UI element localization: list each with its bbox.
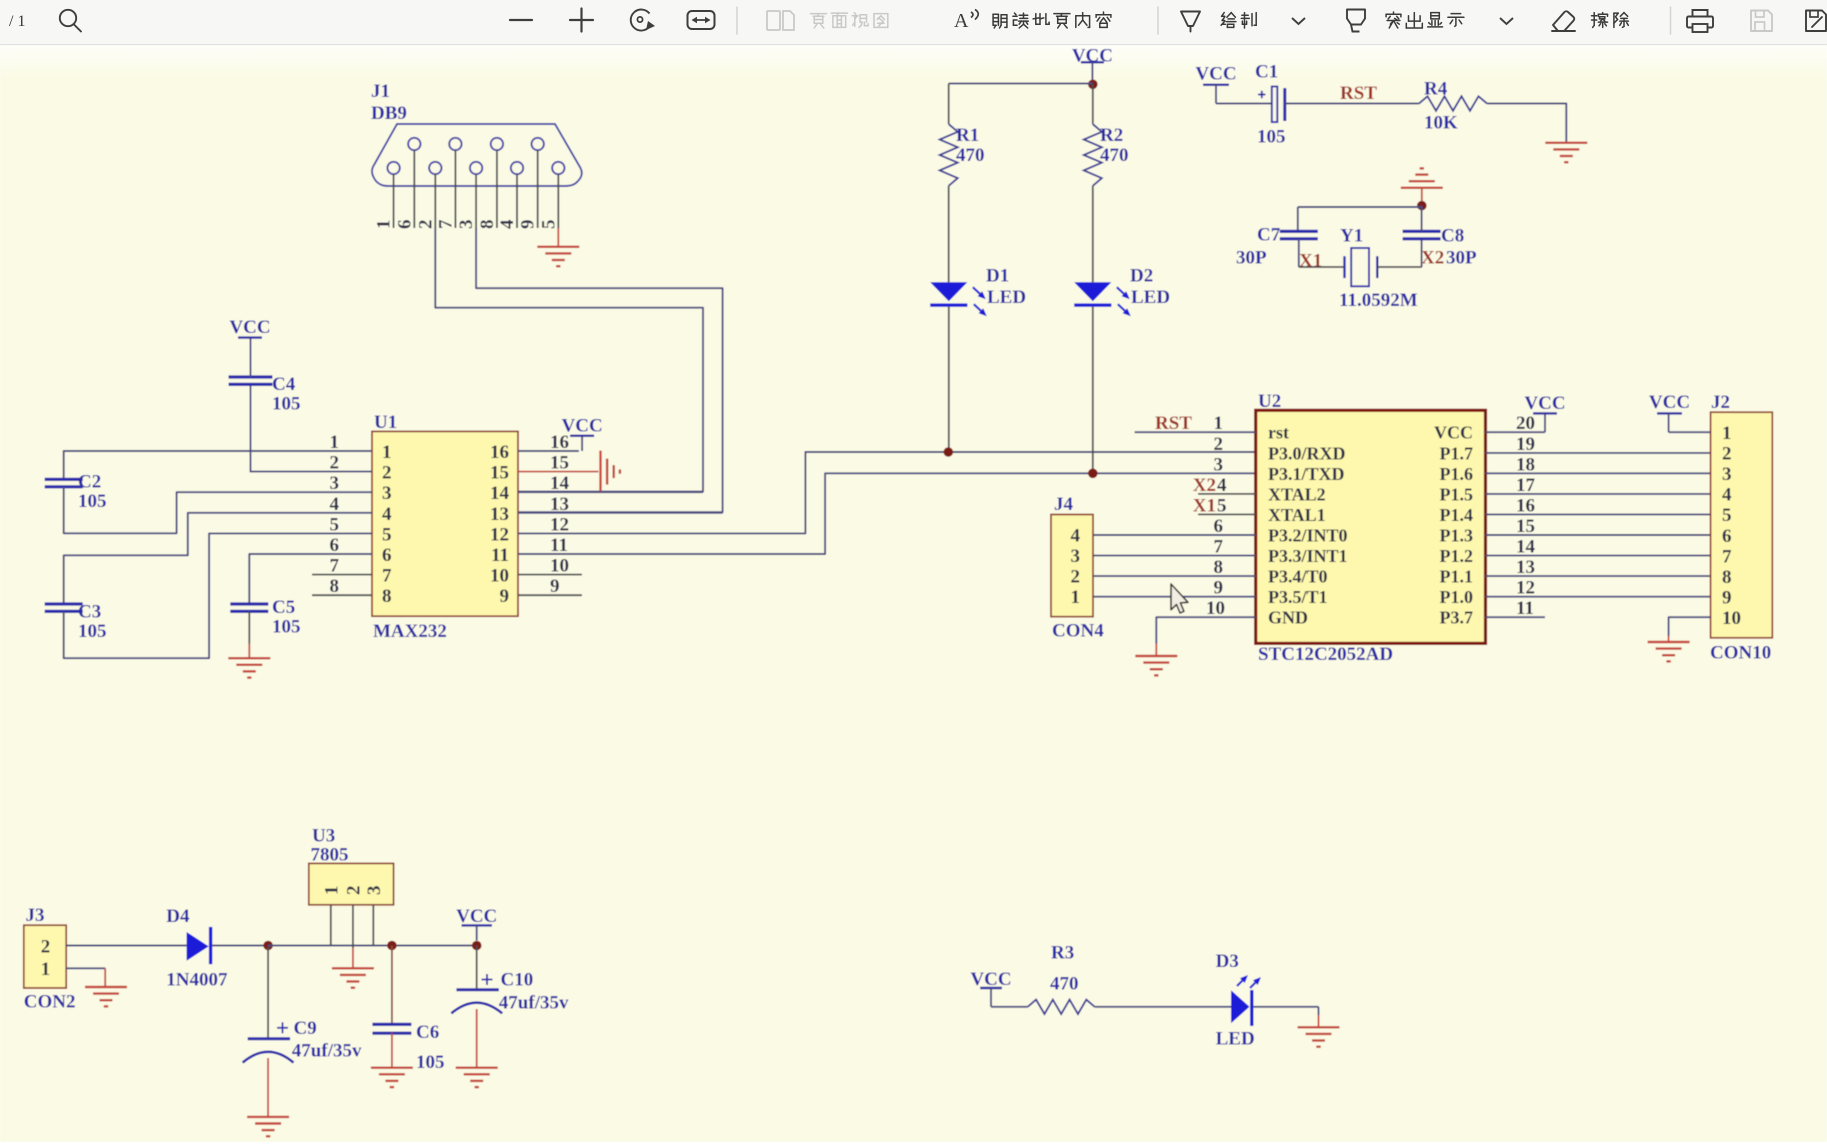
svg-text:CON4: CON4 — [1052, 621, 1104, 642]
svg-text:STC12C2052AD: STC12C2052AD — [1258, 644, 1393, 665]
svg-text:VCC: VCC — [1649, 392, 1690, 413]
svg-text:470: 470 — [1050, 974, 1079, 995]
svg-text:8: 8 — [382, 586, 392, 607]
svg-text:VCC: VCC — [1524, 393, 1565, 414]
svg-text:P3.1/TXD: P3.1/TXD — [1268, 464, 1345, 484]
svg-text:17: 17 — [1516, 475, 1536, 496]
svg-text:3: 3 — [1214, 454, 1224, 475]
svg-text:R3: R3 — [1051, 943, 1074, 964]
svg-text:16: 16 — [490, 442, 509, 463]
svg-text:R1: R1 — [956, 125, 979, 146]
svg-text:1: 1 — [1071, 587, 1081, 608]
svg-text:VCC: VCC — [562, 415, 603, 436]
svg-text:XTAL2: XTAL2 — [1268, 484, 1326, 504]
svg-text:9: 9 — [1722, 588, 1732, 609]
svg-text:4: 4 — [1071, 526, 1081, 547]
svg-text:J2: J2 — [1711, 392, 1730, 413]
svg-text:6: 6 — [1214, 516, 1224, 537]
svg-text:18: 18 — [1516, 454, 1535, 475]
svg-text:D3: D3 — [1216, 951, 1239, 972]
svg-text:9: 9 — [500, 586, 510, 607]
svg-text:3: 3 — [1722, 464, 1732, 485]
svg-text:1: 1 — [374, 220, 395, 230]
svg-text:47uf/35v: 47uf/35v — [499, 993, 569, 1014]
svg-text:C3: C3 — [78, 602, 101, 623]
svg-text:X1: X1 — [1193, 495, 1216, 516]
svg-text:4: 4 — [330, 494, 340, 515]
svg-text:105: 105 — [416, 1052, 445, 1073]
svg-text:U3: U3 — [312, 826, 335, 847]
svg-text:D2: D2 — [1130, 266, 1153, 287]
svg-text:10: 10 — [550, 556, 569, 577]
svg-text:C10: C10 — [501, 970, 534, 991]
svg-text:10K: 10K — [1424, 113, 1458, 134]
svg-text:P1.4: P1.4 — [1440, 505, 1474, 525]
svg-text:P3.0/RXD: P3.0/RXD — [1268, 443, 1346, 463]
svg-text:C9: C9 — [294, 1018, 317, 1039]
svg-text:P3.4/T0: P3.4/T0 — [1268, 567, 1328, 587]
svg-text:J1: J1 — [371, 81, 390, 102]
svg-text:Y1: Y1 — [1340, 226, 1363, 247]
svg-text:6: 6 — [394, 220, 415, 230]
svg-text:9: 9 — [1214, 578, 1224, 599]
svg-text:12: 12 — [490, 524, 509, 545]
svg-text:P1.3: P1.3 — [1440, 526, 1474, 546]
svg-text:13: 13 — [1516, 557, 1535, 578]
svg-text:7: 7 — [330, 556, 340, 577]
svg-text:X2: X2 — [1193, 475, 1216, 496]
svg-text:C2: C2 — [78, 472, 101, 493]
svg-text:13: 13 — [490, 504, 509, 525]
svg-text:105: 105 — [272, 617, 301, 638]
svg-text:16: 16 — [1516, 495, 1535, 516]
svg-text:5: 5 — [1217, 495, 1227, 516]
svg-text:VCC: VCC — [229, 317, 270, 338]
svg-text:5: 5 — [382, 524, 392, 545]
svg-text:4: 4 — [1722, 485, 1732, 506]
svg-text:DB9: DB9 — [371, 103, 407, 124]
svg-text:105: 105 — [78, 621, 107, 642]
svg-text:105: 105 — [78, 491, 107, 512]
svg-text:6: 6 — [382, 545, 392, 566]
svg-text:R2: R2 — [1100, 125, 1123, 146]
svg-text:A: A — [954, 10, 969, 32]
svg-text:6: 6 — [330, 535, 340, 556]
svg-text:3: 3 — [1071, 546, 1081, 567]
svg-text:30P: 30P — [1236, 248, 1267, 269]
svg-text:X2: X2 — [1421, 248, 1444, 269]
svg-text:15: 15 — [490, 463, 509, 484]
svg-text:2: 2 — [1071, 567, 1081, 588]
svg-text:CON10: CON10 — [1710, 643, 1771, 664]
svg-text:4: 4 — [382, 504, 392, 525]
svg-text:5: 5 — [330, 514, 340, 535]
svg-text:8: 8 — [477, 220, 498, 230]
svg-text:P1.0: P1.0 — [1440, 587, 1474, 607]
svg-text:VCC: VCC — [456, 906, 497, 927]
svg-text:11: 11 — [491, 545, 509, 566]
svg-text:J4: J4 — [1054, 494, 1074, 515]
svg-text:C8: C8 — [1441, 226, 1464, 247]
svg-text:2: 2 — [1214, 434, 1224, 455]
svg-text:30P: 30P — [1446, 248, 1477, 269]
svg-text:10: 10 — [1722, 608, 1741, 629]
svg-text:7: 7 — [435, 219, 456, 229]
svg-text:C1: C1 — [1255, 62, 1278, 83]
svg-text:3: 3 — [382, 483, 392, 504]
svg-text:VCC: VCC — [1434, 423, 1473, 443]
svg-text:1N4007: 1N4007 — [166, 970, 228, 991]
svg-text:11: 11 — [550, 535, 568, 556]
svg-text:1: 1 — [1722, 423, 1732, 444]
svg-text:10: 10 — [1206, 598, 1225, 619]
svg-text:LED: LED — [1216, 1029, 1255, 1050]
svg-text:10: 10 — [490, 566, 509, 587]
svg-text:LED: LED — [1131, 287, 1170, 308]
svg-text:rst: rst — [1268, 423, 1289, 443]
svg-text:J3: J3 — [26, 905, 45, 926]
svg-text:/ 1: / 1 — [9, 13, 25, 30]
svg-text:CON2: CON2 — [24, 992, 76, 1013]
svg-text:P3.2/INT0: P3.2/INT0 — [1268, 526, 1348, 546]
svg-text:6: 6 — [1722, 526, 1732, 547]
svg-text:VCC: VCC — [1195, 64, 1236, 85]
svg-text:12: 12 — [1516, 578, 1535, 599]
svg-text:D4: D4 — [166, 906, 190, 927]
svg-text:13: 13 — [550, 494, 569, 515]
svg-text:15: 15 — [1516, 516, 1535, 537]
svg-text:11.0592M: 11.0592M — [1339, 290, 1418, 311]
svg-text:X1: X1 — [1299, 251, 1322, 272]
svg-text:7: 7 — [1722, 546, 1732, 567]
svg-text:2: 2 — [1722, 444, 1732, 465]
svg-text:1: 1 — [1214, 413, 1224, 434]
svg-text:P1.1: P1.1 — [1440, 567, 1474, 587]
svg-text:9: 9 — [518, 220, 539, 230]
svg-text:7: 7 — [382, 566, 392, 587]
svg-text:11: 11 — [1516, 598, 1534, 619]
svg-text:8: 8 — [1722, 567, 1732, 588]
svg-text:D1: D1 — [986, 266, 1009, 287]
svg-text:P1.7: P1.7 — [1440, 443, 1474, 463]
svg-text:U1: U1 — [374, 412, 397, 433]
svg-text:RST: RST — [1155, 413, 1192, 434]
svg-text:C4: C4 — [272, 374, 296, 395]
svg-text:14: 14 — [1516, 537, 1536, 558]
svg-text:C6: C6 — [416, 1022, 439, 1043]
svg-text:3: 3 — [456, 220, 477, 230]
svg-text:P3.5/T1: P3.5/T1 — [1268, 587, 1328, 607]
svg-text:2: 2 — [343, 886, 364, 896]
svg-text:47uf/35v: 47uf/35v — [292, 1041, 362, 1062]
svg-text:8: 8 — [1214, 557, 1224, 578]
svg-text:2: 2 — [382, 463, 392, 484]
svg-text:2: 2 — [415, 220, 436, 230]
svg-text:2: 2 — [330, 453, 340, 474]
svg-text:105: 105 — [1257, 127, 1286, 148]
svg-text:1: 1 — [41, 959, 51, 980]
svg-text:3: 3 — [364, 886, 385, 896]
svg-text:P1.2: P1.2 — [1440, 546, 1474, 566]
svg-text:105: 105 — [272, 394, 301, 415]
svg-text:1: 1 — [382, 442, 392, 463]
svg-text:U2: U2 — [1258, 391, 1281, 412]
svg-text:15: 15 — [550, 453, 569, 474]
svg-text:14: 14 — [550, 473, 570, 494]
svg-text:C7: C7 — [1257, 225, 1281, 246]
svg-text:MAX232: MAX232 — [373, 621, 447, 642]
svg-text:7: 7 — [1214, 537, 1224, 558]
svg-text:P1.6: P1.6 — [1440, 464, 1474, 484]
svg-text:2: 2 — [41, 936, 51, 957]
svg-text:1: 1 — [330, 432, 340, 453]
svg-text:P1.5: P1.5 — [1440, 484, 1474, 504]
svg-text:RST: RST — [1340, 83, 1377, 104]
svg-text:4: 4 — [1217, 475, 1227, 496]
svg-text:4: 4 — [497, 219, 518, 229]
svg-text:P3.3/INT1: P3.3/INT1 — [1268, 546, 1348, 566]
svg-text:GND: GND — [1268, 608, 1308, 628]
svg-text:470: 470 — [1100, 145, 1129, 166]
svg-text:R4: R4 — [1424, 79, 1448, 100]
svg-text:1: 1 — [321, 886, 342, 896]
svg-text:14: 14 — [490, 483, 510, 504]
svg-text:P3.7: P3.7 — [1440, 608, 1474, 628]
svg-text:20: 20 — [1516, 413, 1535, 434]
svg-text:LED: LED — [987, 287, 1026, 308]
svg-text:C5: C5 — [272, 597, 295, 618]
svg-text:12: 12 — [550, 514, 569, 535]
svg-text:3: 3 — [330, 473, 340, 494]
svg-text:7805: 7805 — [311, 845, 349, 866]
svg-text:5: 5 — [1722, 505, 1732, 526]
svg-text:XTAL1: XTAL1 — [1268, 505, 1326, 525]
svg-text:19: 19 — [1516, 434, 1535, 455]
svg-text:8: 8 — [330, 576, 340, 597]
svg-text:5: 5 — [538, 220, 559, 230]
svg-text:9: 9 — [550, 576, 560, 597]
svg-text:470: 470 — [956, 145, 985, 166]
